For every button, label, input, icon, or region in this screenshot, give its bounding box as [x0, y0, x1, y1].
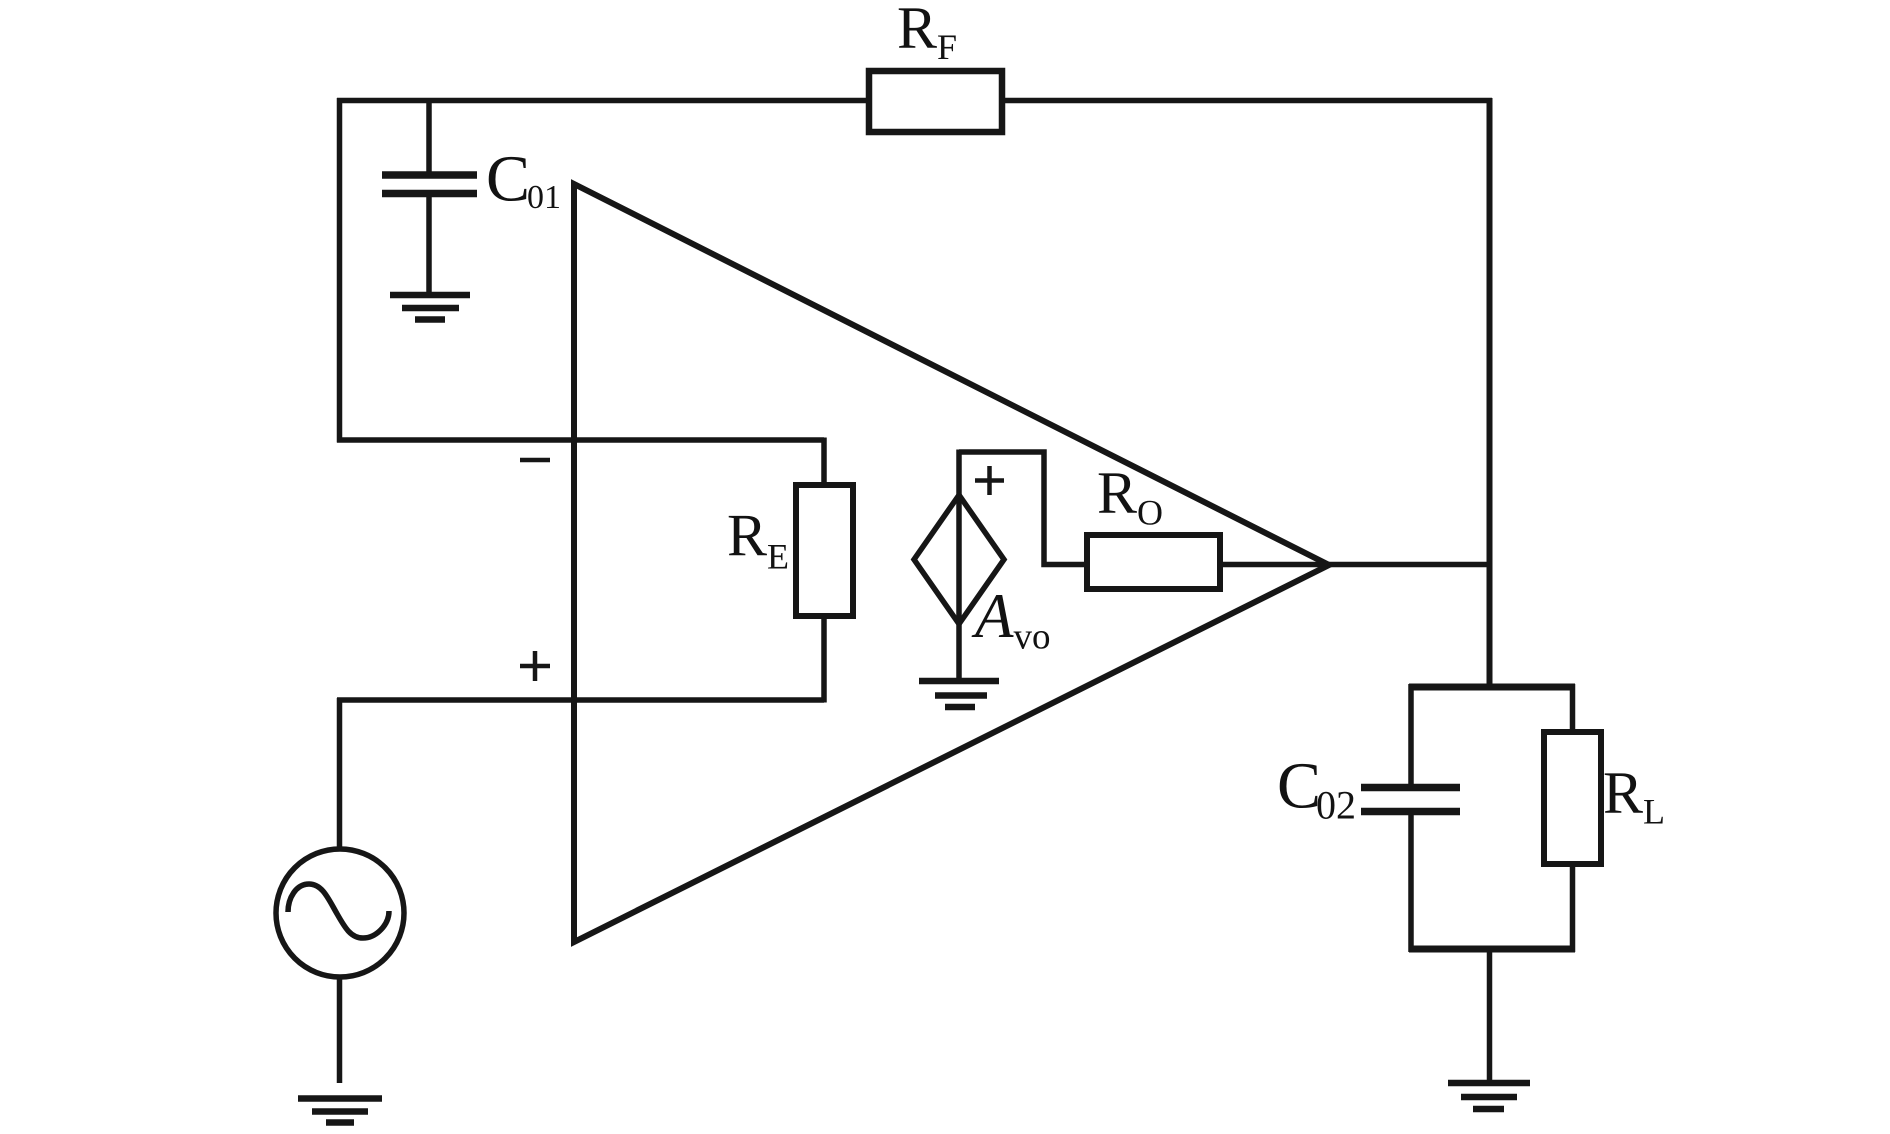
- svg-text:C: C: [486, 143, 530, 216]
- wire left vertical (top-left corner down to inverting input): [337, 98, 343, 443]
- wire top feedback, left segment to RF: [337, 98, 869, 104]
- svg-text:RO: RO: [1097, 460, 1163, 533]
- capacitor C01: [382, 98, 477, 292]
- wire output (RO to apex to right vertical): [1220, 562, 1492, 568]
- capacitor C02: [1361, 684, 1460, 952]
- wire top feedback, right segment from RF to right corner: [1002, 98, 1492, 104]
- resistor RF: [869, 71, 1002, 132]
- wire RE top stub: [821, 438, 827, 486]
- wire right vertical (feedback / output node down to load): [1487, 98, 1493, 690]
- ground (below source): [298, 1099, 382, 1123]
- load block top bus: [1409, 684, 1575, 691]
- op-amp triangle: [574, 184, 1329, 942]
- wire RE bottom stub: [821, 616, 827, 703]
- ground (below dependent source): [919, 681, 999, 707]
- resistor RL (right branch of load): [1544, 684, 1601, 952]
- wire inverting input: [337, 437, 824, 443]
- svg-text:RL: RL: [1603, 760, 1665, 832]
- svg-text:RF: RF: [897, 0, 957, 67]
- wire non-inverting input: [337, 697, 824, 703]
- resistor RO: [1087, 535, 1220, 589]
- wire source top: [337, 698, 343, 850]
- label − (inverting input): [520, 458, 550, 463]
- svg-text:C: C: [1277, 750, 1321, 823]
- source Vs (AC sine source): [276, 849, 404, 977]
- label + (non-inverting input): [520, 651, 550, 681]
- svg-text:Avo: Avo: [971, 581, 1050, 657]
- svg-text:RE: RE: [727, 503, 789, 577]
- ground (below C01): [390, 295, 470, 320]
- svg-text:02: 02: [1316, 783, 1356, 828]
- label + (dependent source polarity): [975, 466, 1004, 495]
- wire dependent source top to RO: [959, 452, 1090, 565]
- wire source bottom: [337, 976, 343, 1083]
- dependent source A_vo (diamond): [914, 450, 1004, 682]
- svg-text:01: 01: [527, 179, 561, 216]
- resistor RE: [796, 485, 853, 616]
- wire load to ground: [1487, 946, 1493, 1083]
- ground (below load): [1448, 1083, 1530, 1109]
- load block bottom bus: [1409, 946, 1575, 953]
